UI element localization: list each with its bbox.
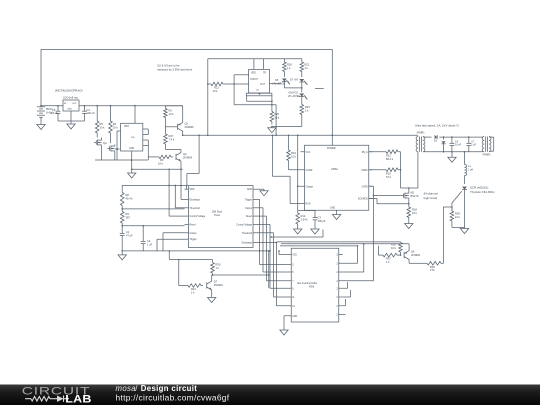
svg-text:RUN: RUN — [306, 204, 311, 206]
IC U6 555 — [121, 123, 143, 151]
ground SCR — [464, 227, 466, 229]
svg-text:270: 270 — [430, 268, 435, 272]
svg-text:R36: R36 — [430, 265, 435, 269]
svg-text:Control Voltage: Control Voltage — [236, 223, 252, 226]
wire U5 top pins — [253, 59, 255, 70]
svg-text:R12: R12 — [301, 214, 306, 218]
svg-text:OUT: OUT — [260, 84, 265, 86]
wire 556 left feeds — [122, 184, 186, 186]
svg-text:TR: TR — [263, 73, 266, 75]
diode D2 — [443, 136, 445, 138]
svg-text:GND: GND — [292, 316, 297, 318]
wire Q4 emitter to R36 — [408, 259, 410, 263]
transformer XFMR2 — [482, 136, 484, 151]
svg-text:7.4 k: 7.4 k — [169, 137, 175, 141]
svg-text:R22: R22 — [304, 63, 309, 67]
wire primary bottom to M2 drain — [417, 152, 419, 188]
svg-text:R21: R21 — [214, 86, 219, 90]
wire R36 up to gate node — [443, 207, 445, 263]
wire R28 bottom — [451, 223, 453, 228]
resistor R36 — [425, 262, 427, 264]
wire M2 gate — [374, 195, 402, 197]
wire Q2 collector to rail — [182, 135, 184, 137]
svg-text:SCR (s6010L): SCR (s6010L) — [470, 186, 488, 190]
wire U5 lower loop — [246, 93, 272, 96]
ground C3 — [314, 227, 316, 229]
resistor R5 — [96, 106, 98, 121]
ground C1 — [121, 250, 123, 252]
capacitor C6 — [451, 136, 453, 138]
IC U3 L6562 — [305, 145, 369, 210]
svg-text:47 uF: 47 uF — [126, 233, 133, 237]
svg-text:R5: R5 — [100, 122, 104, 126]
svg-text:Discharge: Discharge — [190, 198, 201, 201]
svg-text:387: 387 — [126, 215, 131, 219]
svg-text:Reset: Reset — [190, 223, 196, 226]
svg-text:Timer: Timer — [214, 214, 220, 217]
transistor Qb (P-MOSFET) — [109, 146, 111, 150]
svg-text:1 uF: 1 uF — [147, 242, 153, 246]
wire R19 to COMP — [288, 162, 290, 170]
svg-text:XFMR2: XFMR2 — [482, 154, 491, 157]
svg-text:R8: R8 — [126, 193, 130, 197]
wire 555 right pins — [143, 128, 149, 130]
svg-text:GND: GND — [129, 148, 134, 150]
wire 555 bottom — [131, 151, 133, 160]
inductor L1 — [464, 151, 466, 153]
svg-text:D7 +5V: D7 +5V — [290, 79, 298, 82]
resistor R27 — [164, 119, 166, 134]
svg-text:Threshold: Threshold — [190, 207, 201, 210]
svg-text:R26: R26 — [287, 63, 292, 67]
wire Qa/Qb sources to rail160 — [101, 147, 103, 161]
svg-text:Q2: Q2 — [185, 122, 189, 126]
transistor Qa (P-MOSFET) — [95, 140, 97, 144]
wire 4050 VCC — [279, 254, 287, 256]
svg-text:(N-channel: (N-channel — [424, 192, 438, 196]
svg-text:LAB: LAB — [65, 394, 91, 405]
wire Q7 base feed — [178, 260, 180, 286]
resistor R6 — [148, 156, 159, 158]
IC U5 timer — [249, 69, 270, 93]
resistor R25 — [271, 111, 273, 113]
svg-text:10 k: 10 k — [412, 211, 418, 215]
svg-text:R4: R4 — [113, 122, 117, 126]
wire 555 left pin — [117, 130, 121, 132]
wire SOURCE pin — [369, 198, 377, 200]
resistor R22 — [301, 59, 303, 62]
resistor R4 — [110, 106, 112, 121]
wire Q3 emitter rail — [132, 168, 183, 170]
wire threshold — [121, 208, 123, 210]
svg-text:Qa: Qa — [103, 141, 107, 145]
wire rail to IC power pin — [331, 135, 333, 145]
wire regulator bottom — [57, 118, 59, 121]
resistor R31 — [186, 285, 188, 287]
wire rail160 — [131, 159, 133, 161]
svg-text:R28: R28 — [455, 212, 460, 216]
svg-text:10 k: 10 k — [213, 89, 219, 93]
svg-text:10 k: 10 k — [274, 115, 280, 119]
svg-text:1 uH: 1 uH — [468, 168, 473, 171]
ground 4050 — [284, 315, 287, 317]
ground under battery — [40, 122, 42, 125]
svg-text:Q7: Q7 — [214, 280, 218, 284]
svg-text:BS170: BS170 — [411, 194, 419, 198]
svg-text:Reset: Reset — [246, 215, 252, 218]
svg-text:SOURCE: SOURCE — [358, 199, 368, 201]
resistor R16 57k — [369, 169, 383, 171]
svg-text:2N3904: 2N3904 — [214, 283, 224, 287]
wire R27 to Q3 collector — [164, 147, 166, 150]
wire secondary bottom rail — [423, 151, 483, 153]
svg-text:R27: R27 — [169, 134, 174, 138]
resistor R23 — [301, 97, 303, 105]
svg-text:VCC: VCC — [306, 152, 311, 154]
svg-text:R29: R29 — [391, 243, 396, 247]
svg-text:100 uF: 100 uF — [50, 111, 58, 115]
ground 556 — [257, 188, 264, 190]
svg-text:logic level): logic level) — [424, 196, 438, 200]
wire D5 bottom — [283, 82, 285, 88]
svg-text:VDD: VDD — [124, 126, 129, 128]
svg-text:GND: GND — [67, 109, 72, 111]
ground 555 — [131, 160, 133, 172]
wire xfmr2 secondary — [489, 136, 494, 138]
wire inner box top — [208, 58, 302, 60]
svg-text:10 k: 10 k — [158, 161, 164, 165]
wire top rail from battery to LED box — [41, 48, 332, 50]
diode D1 — [435, 135, 438, 139]
svg-text:Trigger: Trigger — [190, 238, 197, 241]
transistor Q3 2N3904 — [175, 154, 177, 160]
SCR thyristor — [464, 176, 466, 185]
svg-text:R18: R18 — [412, 208, 417, 212]
svg-text:C2: C2 — [147, 239, 151, 243]
resistor R18 — [408, 200, 410, 207]
svg-text:R19: R19 — [291, 151, 296, 155]
svg-text:OUT: OUT — [72, 103, 77, 105]
svg-text:DISCH: DISCH — [251, 79, 258, 81]
capacitor C3 — [298, 210, 315, 212]
wire R21 junction — [233, 83, 235, 85]
svg-text:LTL-307EE: LTL-307EE — [273, 83, 285, 86]
svg-text:GATE: GATE — [362, 185, 369, 188]
svg-text:2N3906: 2N3906 — [185, 125, 195, 129]
resistor R28 — [451, 207, 453, 211]
svg-text:Threshold: Threshold — [242, 232, 253, 235]
IC U556 556 Dual Timer — [189, 186, 254, 248]
wire R23 bottom to gnd node — [272, 126, 302, 128]
svg-text:4050: 4050 — [309, 287, 315, 289]
svg-text:2N3906: 2N3906 — [411, 253, 421, 257]
svg-text:1 uF: 1 uF — [471, 144, 476, 147]
svg-text:88.4 k: 88.4 k — [386, 157, 394, 161]
wire discharge to R29 — [276, 242, 278, 244]
wire 556-to-4050 bus — [257, 198, 260, 200]
wire 4050 outputs up — [343, 262, 358, 264]
svg-text:10 k: 10 k — [169, 112, 175, 116]
svg-text:R12: R12 — [386, 154, 391, 158]
svg-text:R25: R25 — [274, 112, 279, 116]
svg-text:http://circuitlab.com/cvwa6gf: http://circuitlab.com/cvwa6gf — [116, 393, 230, 403]
battery BAT1 — [40, 103, 42, 107]
ground R18 — [408, 222, 410, 224]
svg-text:R31: R31 — [191, 287, 196, 291]
svg-text:2N3904: 2N3904 — [183, 155, 193, 159]
resistor R37 — [378, 254, 383, 256]
LED D6 — [301, 82, 303, 92]
svg-text:VDD: VDD — [251, 73, 256, 75]
svg-text:LDO lm8 reg: LDO lm8 reg — [63, 96, 78, 100]
ground output — [451, 151, 453, 153]
wire GATE pin — [369, 185, 374, 187]
ground LED box — [271, 126, 273, 128]
resistor R2 — [164, 106, 166, 109]
wire Q4 collector — [408, 244, 410, 251]
wire reset — [121, 225, 123, 227]
svg-text:Output: Output — [245, 207, 252, 210]
svg-text:10 k: 10 k — [100, 125, 106, 129]
net tick — [315, 87, 324, 89]
resistor R8 — [121, 185, 123, 192]
svg-text:Trigger: Trigger — [245, 198, 252, 201]
resistor R21 — [208, 83, 211, 85]
svg-text:VDD: VDD — [190, 189, 195, 191]
svg-text:R30: R30 — [216, 263, 221, 267]
svg-text:C3: C3 — [318, 216, 322, 220]
svg-text:R16: R16 — [386, 172, 391, 176]
wire from rail251 to Q7 — [168, 250, 170, 252]
wire M2 drain — [408, 188, 410, 192]
svg-text:COMP: COMP — [306, 170, 313, 172]
wire 555 top pin — [134, 106, 136, 124]
transistor Q7 2N3904 — [206, 282, 208, 288]
ground regulator — [70, 121, 72, 124]
capacitor C5 — [57, 106, 59, 112]
wire loop out — [246, 96, 248, 101]
svg-text:100 uF: 100 uF — [87, 111, 95, 115]
svg-text:L6562: L6562 — [331, 168, 338, 171]
ground IC U3 — [336, 210, 338, 213]
svg-text:2.94 k: 2.94 k — [301, 217, 309, 221]
svg-text:(MC78L05ACPRAG): (MC78L05ACPRAG) — [55, 89, 83, 93]
svg-text:replaced by 1 556 dual timer: replaced by 1 556 dual timer — [157, 68, 192, 72]
svg-text:Control Voltage: Control Voltage — [190, 215, 206, 218]
resistor R30 — [178, 259, 180, 261]
svg-text:VCC: VCC — [292, 255, 297, 257]
svg-text:INDIC: INDIC — [361, 170, 368, 172]
svg-text:XFMR1: XFMR1 — [417, 132, 426, 135]
capacitor C7 — [468, 136, 470, 138]
svg-text:GND: GND — [247, 189, 252, 191]
resistor R29 — [400, 241, 402, 244]
svg-text:C1: C1 — [126, 230, 130, 234]
svg-text:R2: R2 — [169, 109, 173, 113]
wire gate drive — [451, 206, 453, 208]
svg-text:R9: R9 — [126, 212, 130, 216]
resistor R12 88.4k — [369, 151, 383, 153]
svg-text:45.4 k: 45.4 k — [126, 196, 134, 200]
svg-text:R23: R23 — [305, 105, 310, 109]
resistor R12b 2.94k — [297, 212, 299, 214]
capacitor C1 — [121, 226, 123, 234]
svg-text:FB_in: FB_in — [362, 152, 369, 154]
svg-text:Q4: Q4 — [411, 250, 415, 254]
resistor R26 — [283, 59, 285, 62]
svg-text:10 k: 10 k — [455, 215, 461, 219]
svg-text:Ultra fast speed, 1A, 1KV diod: Ultra fast speed, 1A, 1KV diode *2 — [415, 123, 459, 127]
svg-text:M2: M2 — [411, 191, 415, 195]
LED D7 — [299, 79, 304, 82]
ground R12b — [297, 227, 299, 229]
ground Q7 — [211, 296, 213, 298]
wire bottom rail — [122, 250, 271, 252]
wire R30 bottom out — [213, 274, 269, 276]
wire rail to 556 vdd — [198, 135, 200, 137]
IC U7 4050 buffer — [291, 248, 339, 322]
MOSFET M2 BS170 — [403, 193, 405, 197]
transistor Q2 2N3906 — [177, 124, 179, 130]
capacitor C2 — [142, 225, 144, 227]
svg-text:Charge: Charge — [306, 185, 314, 188]
svg-text:R37: R37 — [386, 257, 391, 261]
svg-text:100 pF: 100 pF — [318, 219, 326, 223]
wire secondary top — [423, 136, 431, 138]
svg-text:POWER: POWER — [327, 148, 336, 150]
svg-text:Non-inverting buffer: Non-inverting buffer — [297, 282, 317, 285]
svg-text:10 k: 10 k — [113, 125, 119, 129]
logo LAB — [65, 394, 91, 405]
svg-text:Thyristor 15A,600v .: Thyristor 15A,600v . — [470, 190, 496, 194]
resistor R19 — [288, 135, 290, 137]
logo resistor-diode line — [25, 396, 69, 402]
resistor R9 — [121, 209, 123, 212]
svg-text:Output: Output — [190, 232, 197, 235]
wire trigger loop — [157, 238, 185, 240]
logo CIRCUIT — [22, 384, 91, 397]
wire vref — [271, 236, 323, 238]
svg-text:R6: R6 — [160, 158, 164, 162]
svg-text:Q3: Q3 — [183, 152, 187, 156]
wire main 5V rail — [41, 105, 183, 107]
svg-text:10 k: 10 k — [291, 154, 297, 158]
capacitor C4 — [84, 106, 86, 112]
svg-text:10 nF: 10 nF — [455, 144, 462, 147]
wire loop to R25 — [271, 96, 273, 112]
wire rail to RUN — [272, 135, 274, 137]
wire FB join — [400, 152, 402, 188]
svg-text:Discharge: Discharge — [242, 242, 253, 245]
svg-text:10 k: 10 k — [391, 246, 397, 250]
LED D5 — [282, 79, 287, 82]
svg-text:57 k: 57 k — [386, 175, 392, 179]
wire charge pin — [297, 135, 299, 137]
svg-text:GND: GND — [330, 208, 335, 210]
regulator U4 box — [63, 100, 79, 111]
transistor Q4 2N3906 — [403, 252, 405, 258]
node battery-rail — [40, 105, 42, 107]
svg-text:LTL-307EE: LTL-307EE — [288, 95, 300, 98]
